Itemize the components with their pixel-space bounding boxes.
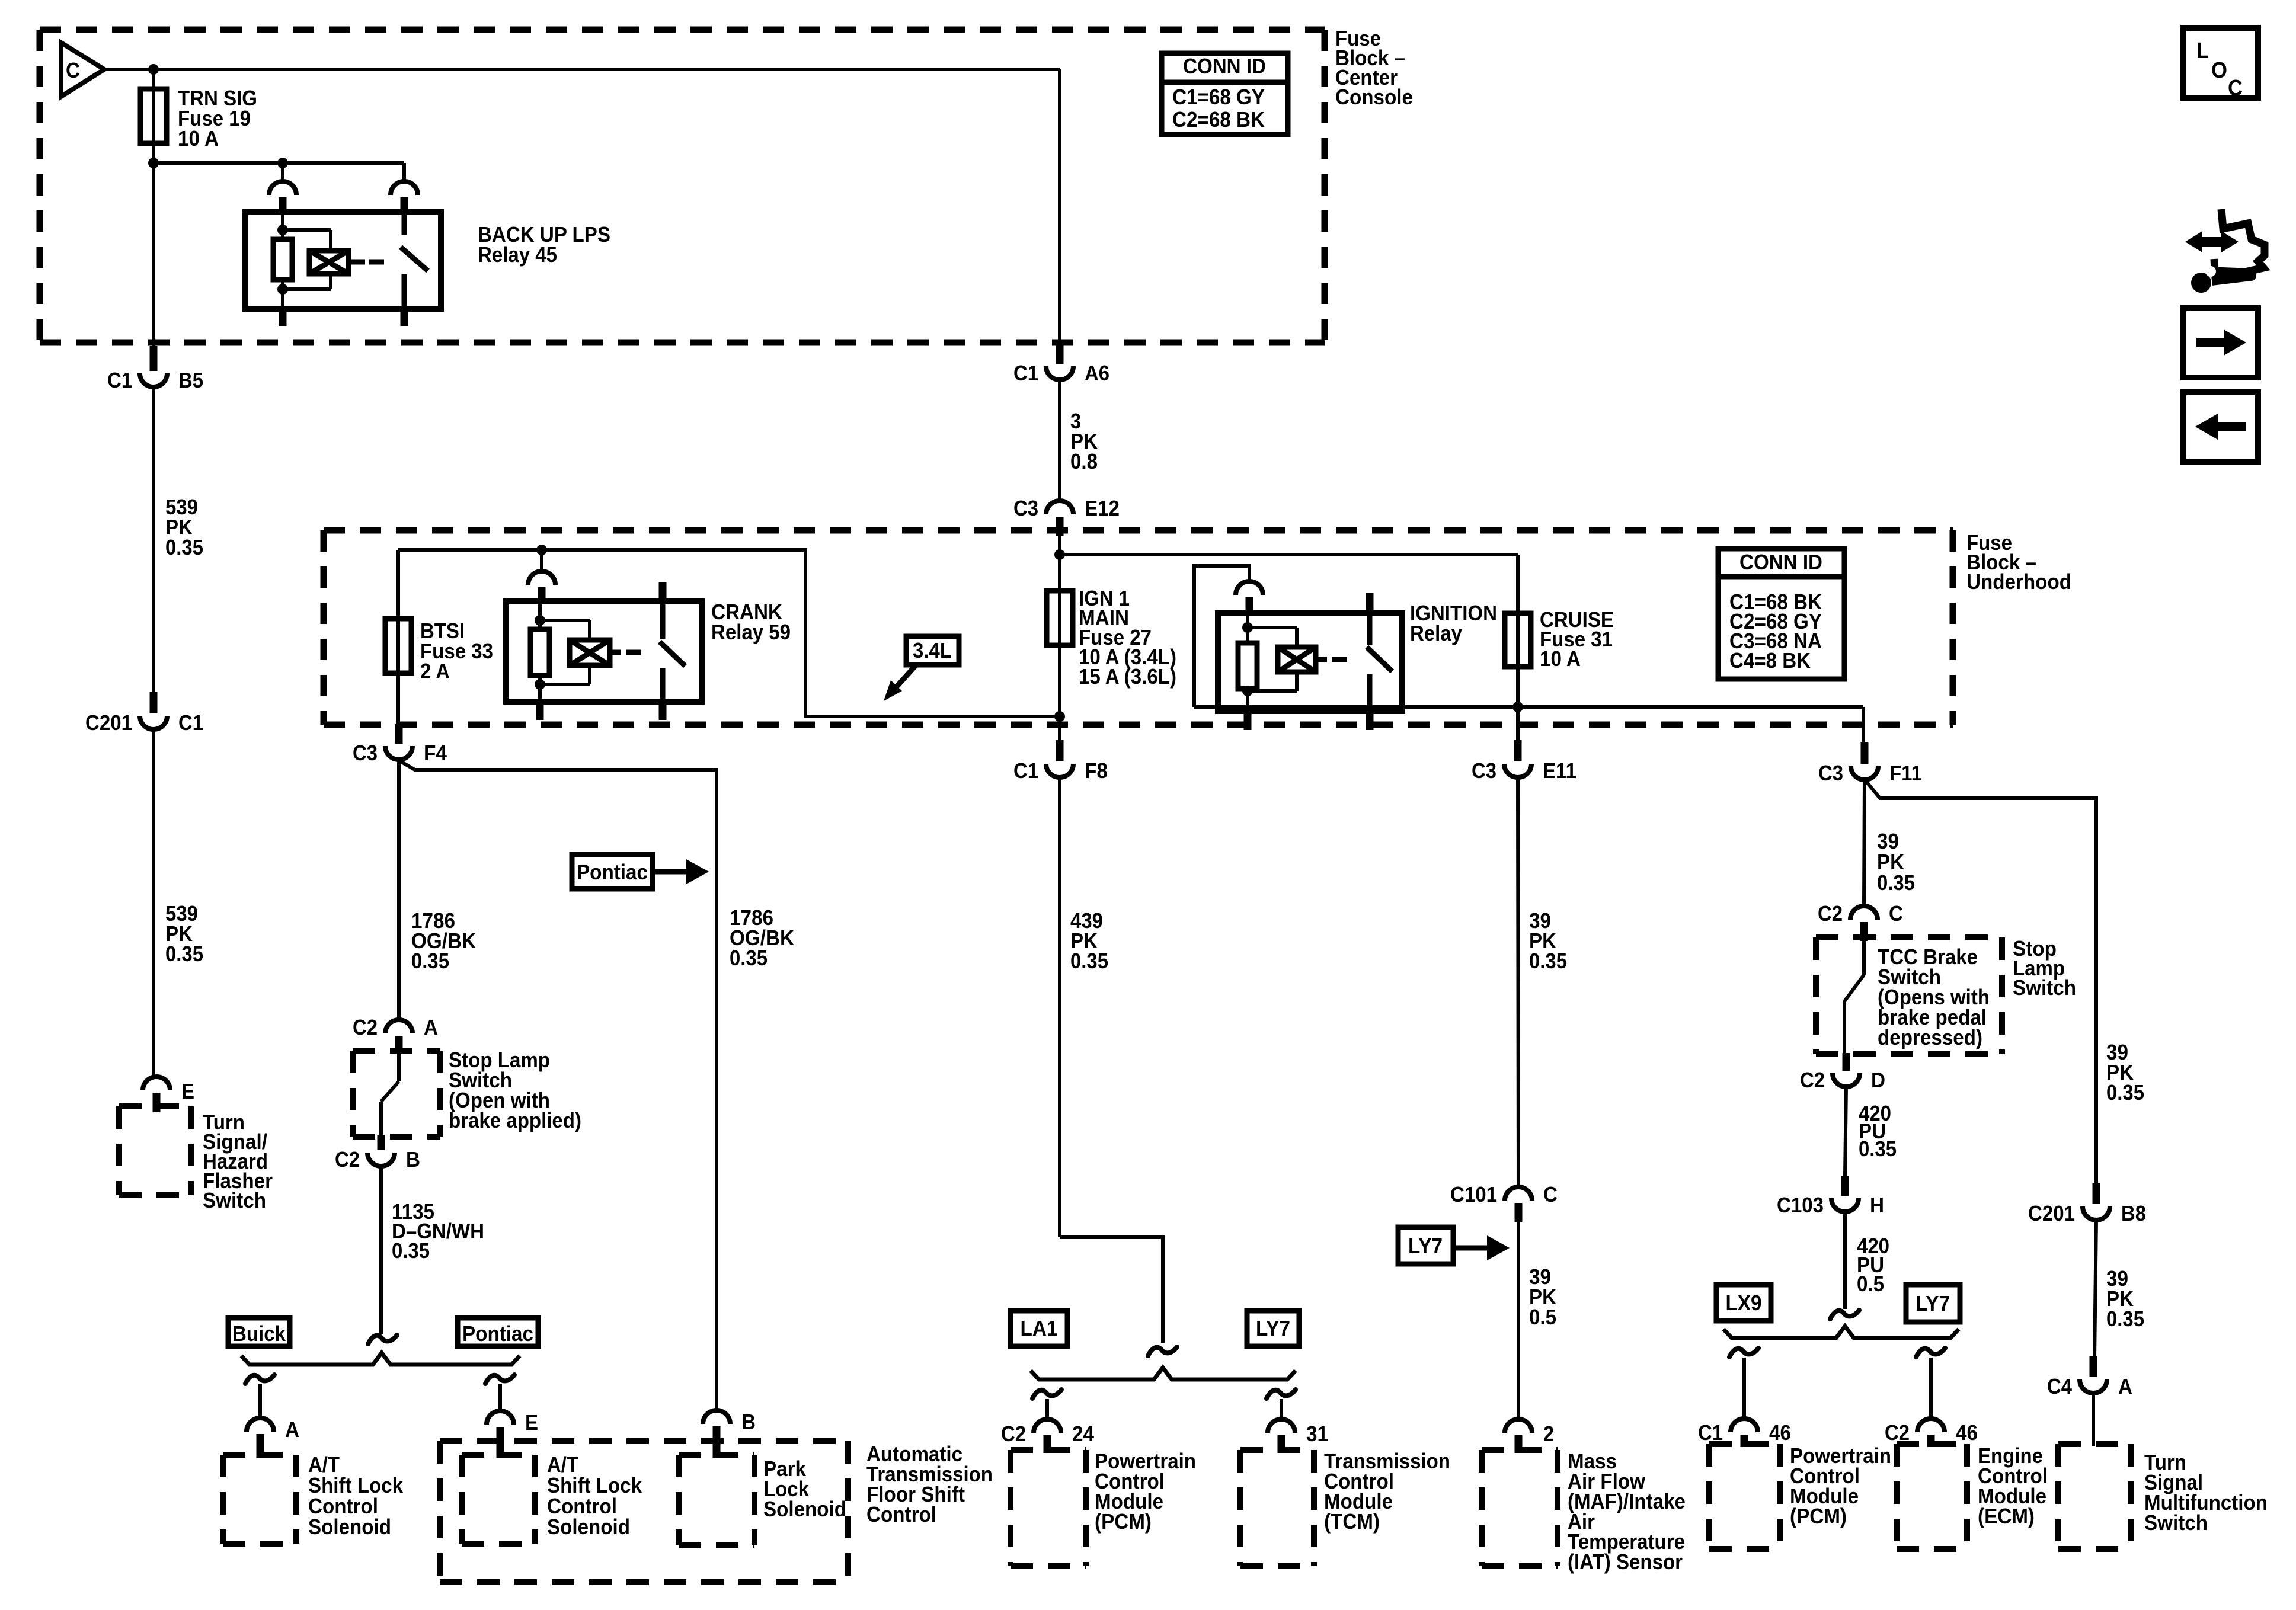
svg-text:B8: B8 <box>2121 1201 2146 1225</box>
svg-text:Solenoid: Solenoid <box>547 1515 630 1539</box>
svg-text:E: E <box>525 1410 538 1435</box>
svg-text:0.35: 0.35 <box>2106 1307 2144 1331</box>
svg-text:C3: C3 <box>1013 496 1038 520</box>
svg-text:C103: C103 <box>1777 1193 1824 1217</box>
svg-text:Switch: Switch <box>2144 1510 2208 1535</box>
svg-text:Console: Console <box>1335 85 1413 109</box>
svg-text:C2: C2 <box>353 1015 378 1039</box>
svg-text:Switch: Switch <box>2013 975 2076 1000</box>
svg-text:0.5: 0.5 <box>1857 1272 1884 1296</box>
svg-text:Solenoid: Solenoid <box>308 1515 391 1539</box>
svg-text:C: C <box>1543 1182 1558 1206</box>
svg-text:LA1: LA1 <box>1021 1316 1058 1340</box>
svg-text:0.35: 0.35 <box>1070 949 1108 973</box>
svg-text:C2: C2 <box>1800 1068 1825 1092</box>
svg-text:C201: C201 <box>2028 1201 2075 1225</box>
svg-text:(IAT) Sensor: (IAT) Sensor <box>1568 1550 1683 1574</box>
svg-text:0.35: 0.35 <box>392 1238 430 1263</box>
svg-text:(TCM): (TCM) <box>1324 1509 1380 1534</box>
svg-text:2 A: 2 A <box>420 659 450 683</box>
svg-text:15 A (3.6L): 15 A (3.6L) <box>1079 664 1176 689</box>
svg-text:0.5: 0.5 <box>1529 1305 1556 1329</box>
svg-text:C2: C2 <box>1885 1420 1910 1445</box>
svg-text:2: 2 <box>1543 1422 1554 1446</box>
svg-text:D: D <box>1871 1068 1885 1092</box>
svg-text:A: A <box>2118 1374 2132 1398</box>
svg-text:B: B <box>406 1147 420 1172</box>
svg-text:CONN ID: CONN ID <box>1183 54 1266 78</box>
svg-text:E: E <box>181 1079 194 1103</box>
svg-text:LY7: LY7 <box>1256 1316 1290 1340</box>
svg-text:brake applied): brake applied) <box>449 1108 581 1132</box>
svg-text:C1=68 GY: C1=68 GY <box>1172 85 1265 109</box>
svg-text:B: B <box>741 1410 756 1434</box>
svg-text:C2: C2 <box>335 1147 360 1172</box>
svg-text:0.35: 0.35 <box>1859 1137 1897 1161</box>
svg-text:F8: F8 <box>1085 758 1108 783</box>
svg-text:C1: C1 <box>178 710 203 735</box>
svg-text:Pontiac: Pontiac <box>462 1321 533 1346</box>
svg-text:0.35: 0.35 <box>1877 870 1915 895</box>
svg-text:0.35: 0.35 <box>411 949 449 973</box>
svg-text:E12: E12 <box>1085 496 1120 520</box>
svg-text:(PCM): (PCM) <box>1095 1509 1152 1534</box>
svg-text:C3: C3 <box>353 741 378 765</box>
svg-text:3.4L: 3.4L <box>913 638 952 662</box>
svg-text:0.35: 0.35 <box>165 535 203 559</box>
svg-text:31: 31 <box>1306 1422 1328 1446</box>
svg-text:0.35: 0.35 <box>165 942 203 966</box>
svg-text:Relay 45: Relay 45 <box>478 242 557 267</box>
svg-text:C2: C2 <box>1818 901 1843 926</box>
svg-text:C4: C4 <box>2047 1374 2072 1398</box>
svg-text:A: A <box>285 1417 299 1442</box>
svg-text:LX9: LX9 <box>1726 1291 1762 1315</box>
svg-text:F11: F11 <box>1889 761 1922 785</box>
svg-text:LY7: LY7 <box>1408 1234 1443 1258</box>
svg-text:B5: B5 <box>178 368 203 392</box>
svg-text:Pontiac: Pontiac <box>577 860 648 884</box>
svg-text:Relay 59: Relay 59 <box>711 620 791 644</box>
svg-text:H: H <box>1870 1193 1884 1217</box>
svg-text:depressed): depressed) <box>1878 1025 1982 1049</box>
svg-text:Relay: Relay <box>1410 621 1462 645</box>
svg-text:F4: F4 <box>424 741 447 765</box>
svg-text:C101: C101 <box>1450 1182 1497 1206</box>
svg-text:0.35: 0.35 <box>2106 1080 2144 1105</box>
svg-text:0.8: 0.8 <box>1070 449 1098 473</box>
svg-text:C2=68 BK: C2=68 BK <box>1172 107 1265 132</box>
svg-text:C3: C3 <box>1818 761 1843 785</box>
svg-text:Buick: Buick <box>232 1321 286 1346</box>
svg-text:C1: C1 <box>107 368 132 392</box>
svg-text:C3: C3 <box>1472 758 1496 783</box>
svg-text:0.35: 0.35 <box>730 946 768 970</box>
svg-text:C201: C201 <box>85 710 132 735</box>
svg-text:A6: A6 <box>1085 361 1109 385</box>
svg-text:(ECM): (ECM) <box>1978 1504 2035 1528</box>
svg-text:C1: C1 <box>1698 1420 1723 1445</box>
svg-text:10 A: 10 A <box>178 126 219 151</box>
svg-text:0.35: 0.35 <box>1529 949 1567 973</box>
svg-text:C1: C1 <box>1013 758 1038 783</box>
svg-text:(PCM): (PCM) <box>1790 1504 1847 1528</box>
svg-text:C: C <box>2228 76 2243 101</box>
svg-text:46: 46 <box>1956 1420 1978 1445</box>
svg-text:C: C <box>1889 901 1903 926</box>
svg-text:A: A <box>424 1015 438 1039</box>
svg-text:C1: C1 <box>1013 361 1038 385</box>
svg-text:C: C <box>66 58 80 82</box>
svg-text:E11: E11 <box>1543 758 1576 783</box>
svg-text:24: 24 <box>1072 1422 1094 1446</box>
svg-text:Control: Control <box>866 1502 936 1526</box>
svg-text:Underhood: Underhood <box>1966 569 2071 594</box>
svg-text:46: 46 <box>1769 1420 1791 1445</box>
svg-text:CONN ID: CONN ID <box>1739 550 1822 574</box>
svg-text:C2: C2 <box>1001 1422 1026 1446</box>
svg-text:O: O <box>2211 58 2227 83</box>
svg-text:L: L <box>2196 39 2209 63</box>
svg-text:10 A: 10 A <box>1540 646 1581 671</box>
svg-text:Solenoid: Solenoid <box>763 1497 846 1521</box>
svg-text:Switch: Switch <box>203 1188 266 1212</box>
svg-text:C4=8 BK: C4=8 BK <box>1729 648 1811 673</box>
svg-text:LY7: LY7 <box>1916 1291 1950 1315</box>
